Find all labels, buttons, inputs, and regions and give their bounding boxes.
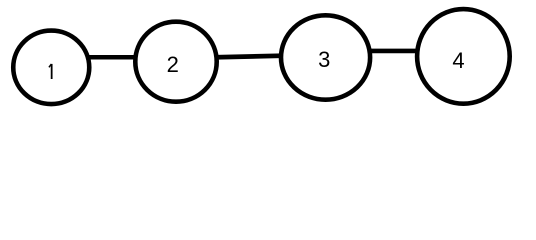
wire node2-node3 [190,55,305,58]
node 1 [13,31,89,105]
node 2 [135,22,216,102]
wire node1-node2 [60,55,160,60]
label 1 [49,64,52,79]
svg-text:4: 4 [452,48,464,73]
wire node3-node4 [350,49,440,54]
svg-text:2: 2 [167,52,179,77]
node 3 [281,15,370,99]
svg-text:3: 3 [318,47,330,72]
node 4 [417,9,510,104]
